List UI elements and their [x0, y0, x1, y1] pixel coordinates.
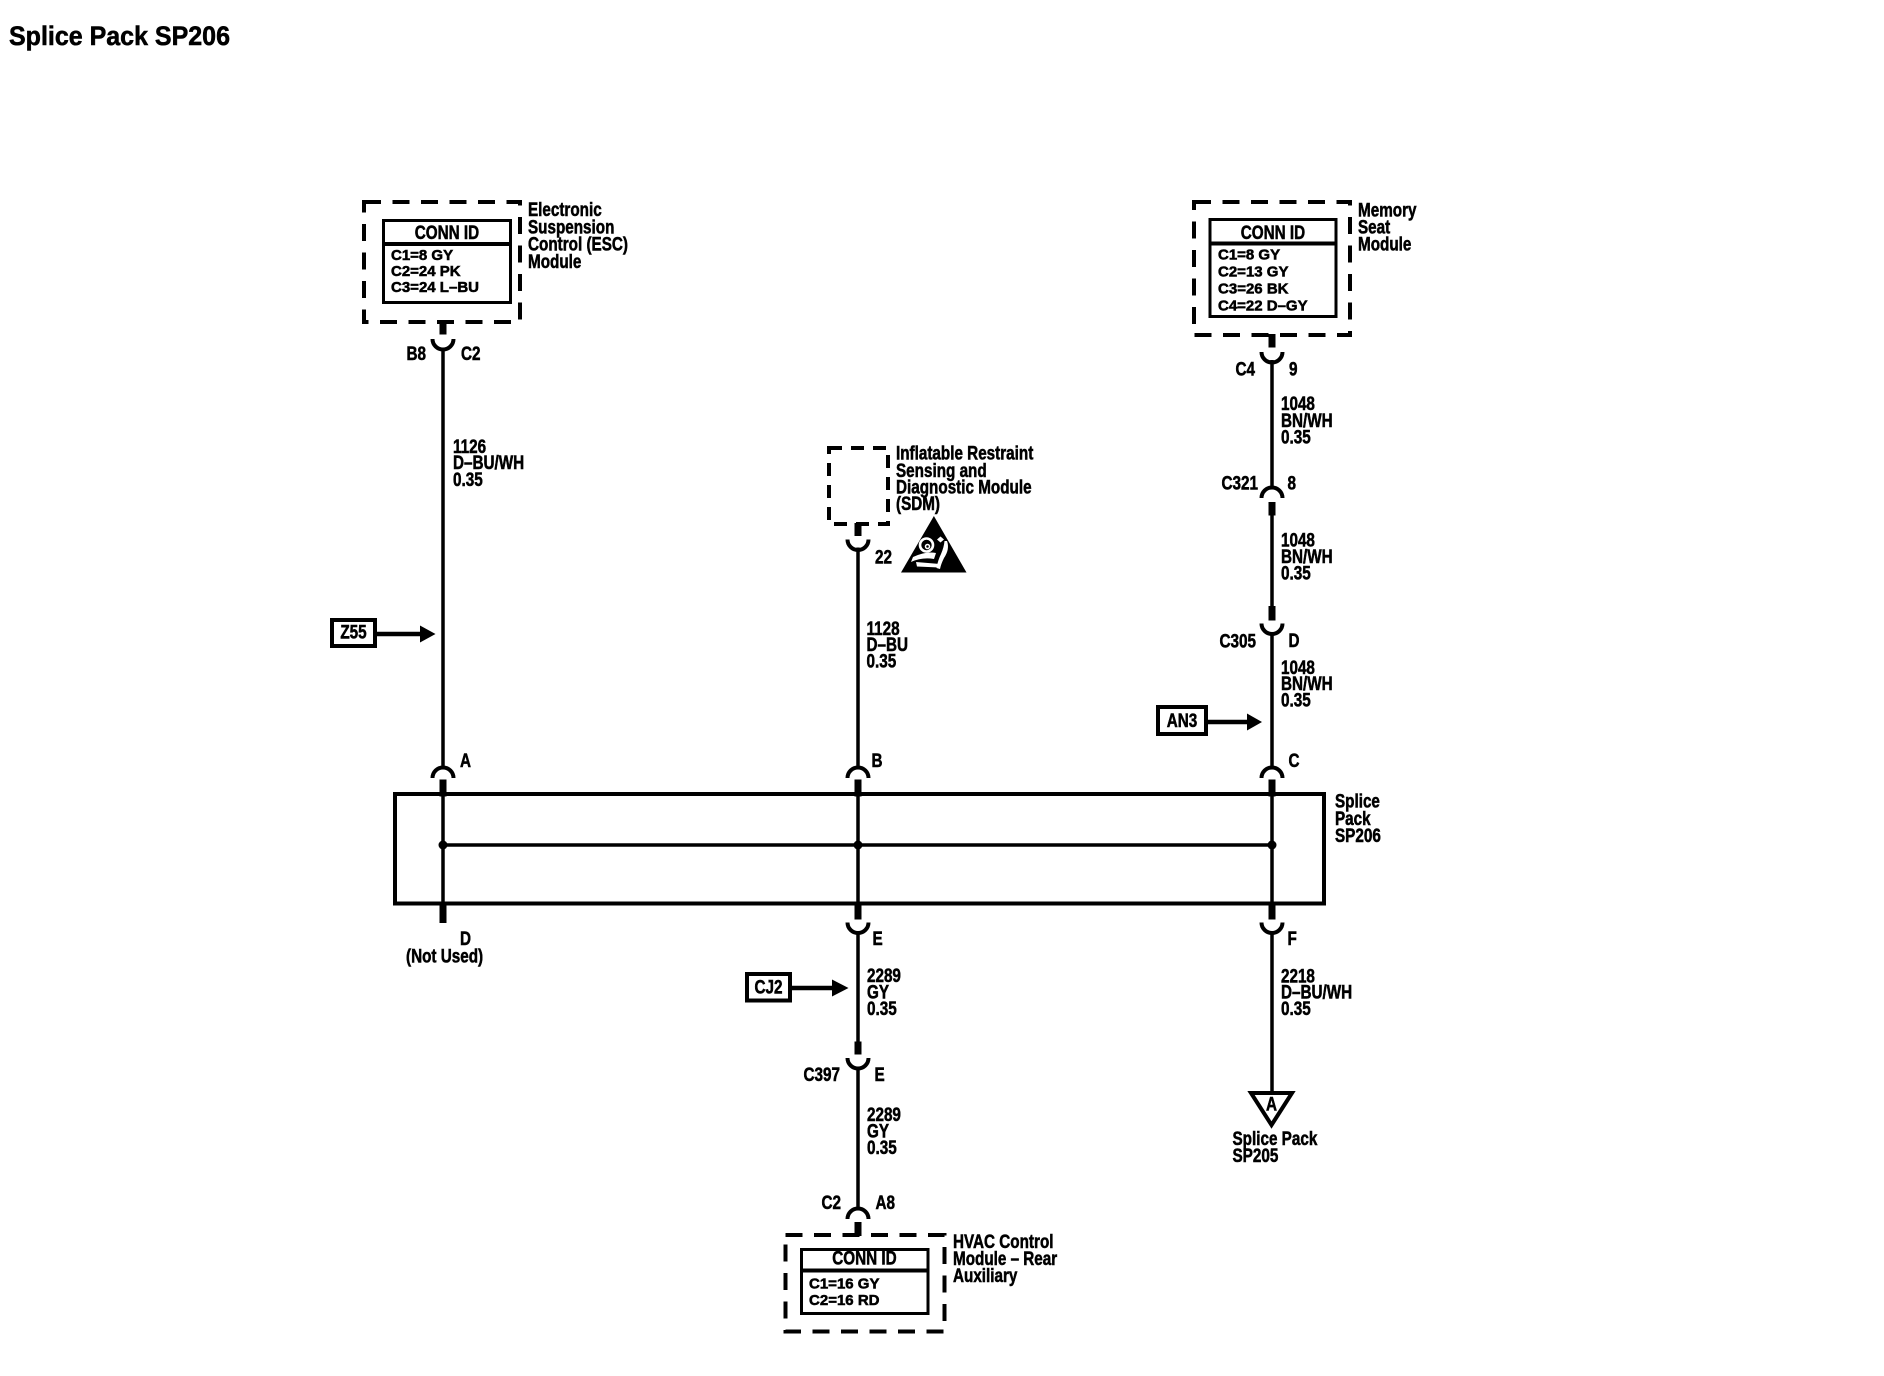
- svg-text:C2=16 RD: C2=16 RD: [809, 1292, 880, 1309]
- svg-text:Module: Module: [1358, 235, 1411, 256]
- svg-text:A: A: [1266, 1095, 1277, 1116]
- svg-text:C2=13 GY: C2=13 GY: [1218, 264, 1289, 281]
- svg-text:0.35: 0.35: [1281, 999, 1311, 1020]
- svg-text:C1=8 GY: C1=8 GY: [1218, 247, 1280, 264]
- svg-text:C2: C2: [822, 1193, 842, 1214]
- svg-text:0.35: 0.35: [453, 470, 483, 491]
- svg-text:A: A: [460, 751, 471, 772]
- svg-text:22: 22: [875, 548, 892, 569]
- svg-text:CONN ID: CONN ID: [1241, 223, 1305, 244]
- svg-text:Z55: Z55: [340, 623, 367, 644]
- svg-text:0.35: 0.35: [1281, 428, 1311, 449]
- svg-text:C3=24 L–BU: C3=24 L–BU: [391, 279, 479, 296]
- svg-text:Auxiliary: Auxiliary: [953, 1266, 1018, 1287]
- svg-text:C2=24 PK: C2=24 PK: [391, 263, 461, 280]
- svg-text:C1=8 GY: C1=8 GY: [391, 247, 453, 264]
- svg-text:CJ2: CJ2: [755, 978, 783, 999]
- svg-text:A8: A8: [876, 1193, 896, 1214]
- svg-text:0.35: 0.35: [1281, 564, 1311, 585]
- svg-text:C4: C4: [1236, 360, 1256, 381]
- svg-text:F: F: [1288, 929, 1297, 950]
- svg-text:(Not Used): (Not Used): [406, 947, 483, 968]
- svg-text:(SDM): (SDM): [896, 494, 940, 515]
- svg-text:8: 8: [1288, 474, 1297, 495]
- svg-text:CONN ID: CONN ID: [832, 1249, 896, 1270]
- svg-text:Splice Pack SP206: Splice Pack SP206: [9, 21, 230, 51]
- svg-text:D: D: [1289, 631, 1300, 652]
- svg-text:CONN ID: CONN ID: [415, 223, 479, 244]
- svg-text:E: E: [875, 1065, 885, 1086]
- svg-text:C1=16 GY: C1=16 GY: [809, 1276, 880, 1293]
- svg-text:9: 9: [1289, 360, 1298, 381]
- svg-text:SP205: SP205: [1233, 1146, 1279, 1167]
- svg-text:C: C: [1289, 751, 1300, 772]
- svg-text:SP206: SP206: [1335, 826, 1381, 847]
- svg-text:C3=26 BK: C3=26 BK: [1218, 281, 1289, 298]
- svg-text:0.35: 0.35: [867, 1138, 897, 1159]
- svg-text:C2: C2: [461, 344, 481, 365]
- svg-text:Module: Module: [528, 252, 581, 273]
- svg-text:C4=22 D–GY: C4=22 D–GY: [1218, 298, 1308, 315]
- svg-text:E: E: [873, 929, 883, 950]
- svg-text:C397: C397: [804, 1065, 841, 1086]
- svg-text:0.35: 0.35: [1281, 691, 1311, 712]
- svg-text:0.35: 0.35: [867, 999, 897, 1020]
- svg-text:C305: C305: [1220, 632, 1257, 653]
- svg-text:B8: B8: [407, 344, 427, 365]
- svg-text:B: B: [872, 751, 883, 772]
- svg-text:AN3: AN3: [1167, 711, 1198, 732]
- svg-text:C321: C321: [1222, 474, 1259, 495]
- svg-text:0.35: 0.35: [867, 652, 897, 673]
